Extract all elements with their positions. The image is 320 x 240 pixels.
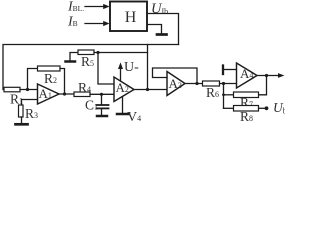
wire to R7 xyxy=(224,94,234,96)
op-amp A1 xyxy=(38,84,60,104)
node A3 output junction xyxy=(195,82,198,85)
wire A1 output xyxy=(59,93,74,95)
node A2 output junction xyxy=(146,88,149,91)
resistor R7 xyxy=(234,92,259,110)
wire A4 feedback xyxy=(259,76,267,95)
wire A3 output xyxy=(185,83,203,85)
wire junction down to R7 R8 xyxy=(223,84,225,109)
label U_Ib xyxy=(151,1,168,17)
block H (Hall element) xyxy=(110,2,147,32)
resistor R3 xyxy=(19,105,39,121)
wire to R8 xyxy=(224,107,234,109)
resistor R8 xyxy=(234,106,267,125)
node A4 output junction xyxy=(265,74,268,77)
op-amp A4 xyxy=(237,63,258,88)
ground (R3) xyxy=(16,117,28,124)
wire input arrow I_B xyxy=(85,21,110,26)
wire A1 noninverting input xyxy=(22,100,38,106)
svg-text:H: H xyxy=(125,9,137,26)
resistor R4 xyxy=(74,80,114,97)
capacitor C1 xyxy=(85,94,109,112)
node R6/A4 junction xyxy=(222,82,225,85)
supply terminal V4 xyxy=(117,97,141,125)
svg-text:U-: U- xyxy=(124,60,139,75)
node junction R1 input xyxy=(26,88,29,91)
node R4/C1 junction xyxy=(100,93,103,96)
label I_B xyxy=(67,15,78,30)
ground (R5) xyxy=(66,53,79,62)
wire input arrow I_BL xyxy=(85,4,110,9)
wire R2 feedback right xyxy=(60,69,65,95)
resistor R1 xyxy=(4,87,38,106)
wire R5 node to A2 inverting input xyxy=(98,53,114,85)
op-amp A2 xyxy=(114,77,134,102)
node R5 junction xyxy=(96,51,99,54)
op-amp A3 xyxy=(167,72,185,96)
wire bus drop to A2 output xyxy=(147,45,149,90)
wire U_Ib output from H xyxy=(147,14,179,45)
wire bus U_Ib to left side xyxy=(3,45,179,90)
label I_BL xyxy=(67,0,84,15)
node A1 output junction xyxy=(63,92,66,95)
wire A4 output arrow xyxy=(257,73,284,78)
wire R5 node to bus drop xyxy=(94,52,148,54)
supply arrow U- xyxy=(118,60,139,81)
node R7 junction xyxy=(222,93,225,96)
node U_b terminal xyxy=(265,100,287,116)
wire A3 feedback loop xyxy=(153,68,198,84)
resistor R2 xyxy=(38,66,61,86)
ground (H output) xyxy=(147,25,167,35)
ground (C1) xyxy=(97,109,107,116)
resistor R6 xyxy=(203,81,237,100)
wire R2 feedback left xyxy=(28,69,38,90)
input terminal bar A4 xyxy=(223,66,237,75)
wire A2 output xyxy=(134,89,167,91)
resistor R5 xyxy=(78,50,94,69)
